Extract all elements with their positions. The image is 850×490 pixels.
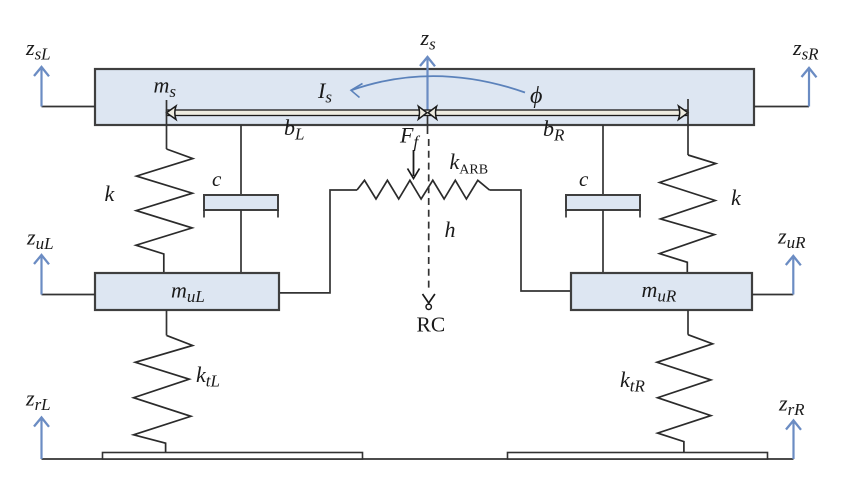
roll angle arc phi: [351, 76, 525, 97]
spring k right: [660, 155, 716, 273]
arrowhead center pointing left: [428, 106, 437, 119]
arrow z_uL: [34, 255, 49, 295]
force F_f arrow: [408, 150, 420, 179]
dimension shaft b_L b_R: [167, 110, 689, 116]
wire z_sL to bar: [42, 106, 96, 108]
arrowhead right end: [679, 106, 689, 120]
ARB right link wire: [490, 190, 572, 291]
unsprung mass m_uR box: [571, 273, 752, 310]
svg-text:RC: RC: [417, 313, 446, 337]
tire spring k_tL: [134, 335, 193, 452]
arrow z_rR: [786, 421, 801, 460]
damper c left rod bottom: [240, 210, 242, 273]
ground line: [42, 458, 794, 460]
ARB left link wire: [279, 190, 357, 293]
wire z_sR to bar: [754, 106, 809, 108]
svg-text:c: c: [212, 167, 222, 191]
arrow z_rL: [34, 418, 49, 460]
svg-text:c: c: [579, 167, 589, 191]
arrowhead left end: [167, 106, 177, 120]
tire spring k_tL stub: [166, 310, 168, 335]
tick right: [687, 99, 689, 155]
ground plate right: [508, 453, 768, 460]
ARB spring k_ARB: [357, 180, 490, 199]
tire spring k_tR: [657, 335, 713, 453]
tire spring k_tR stub: [687, 310, 689, 335]
damper c left cup ticks: [203, 210, 205, 218]
damper c right rod top: [602, 125, 604, 195]
spring k left: [136, 149, 193, 273]
RC arrow marker: [423, 294, 435, 309]
damper c left piston: [204, 195, 278, 210]
roll center dashed line: [428, 139, 430, 292]
tick center: [427, 116, 429, 134]
arrow z_sR: [802, 68, 817, 107]
svg-text:ϕ: ϕ: [530, 83, 542, 109]
wire z_uR to box: [752, 294, 793, 296]
sprung mass bar m_s: [95, 69, 754, 125]
unsprung mass m_uL box: [95, 273, 279, 310]
arrow z_sL: [34, 67, 49, 107]
tick left at m_s: [166, 100, 168, 149]
damper c right cup ticks: [565, 210, 567, 218]
z_s axis arrow: [420, 57, 435, 115]
svg-text:h: h: [445, 217, 456, 242]
svg-text:k: k: [105, 181, 116, 206]
arrow z_uR: [786, 256, 801, 295]
damper c right piston: [566, 195, 640, 210]
arrowhead center pointing right: [418, 106, 427, 119]
damper c right rod bottom: [602, 210, 604, 273]
wire z_uL to box: [42, 294, 96, 296]
svg-text:k: k: [731, 185, 742, 210]
damper c left rod top: [240, 125, 242, 195]
ground plate left: [103, 453, 363, 460]
